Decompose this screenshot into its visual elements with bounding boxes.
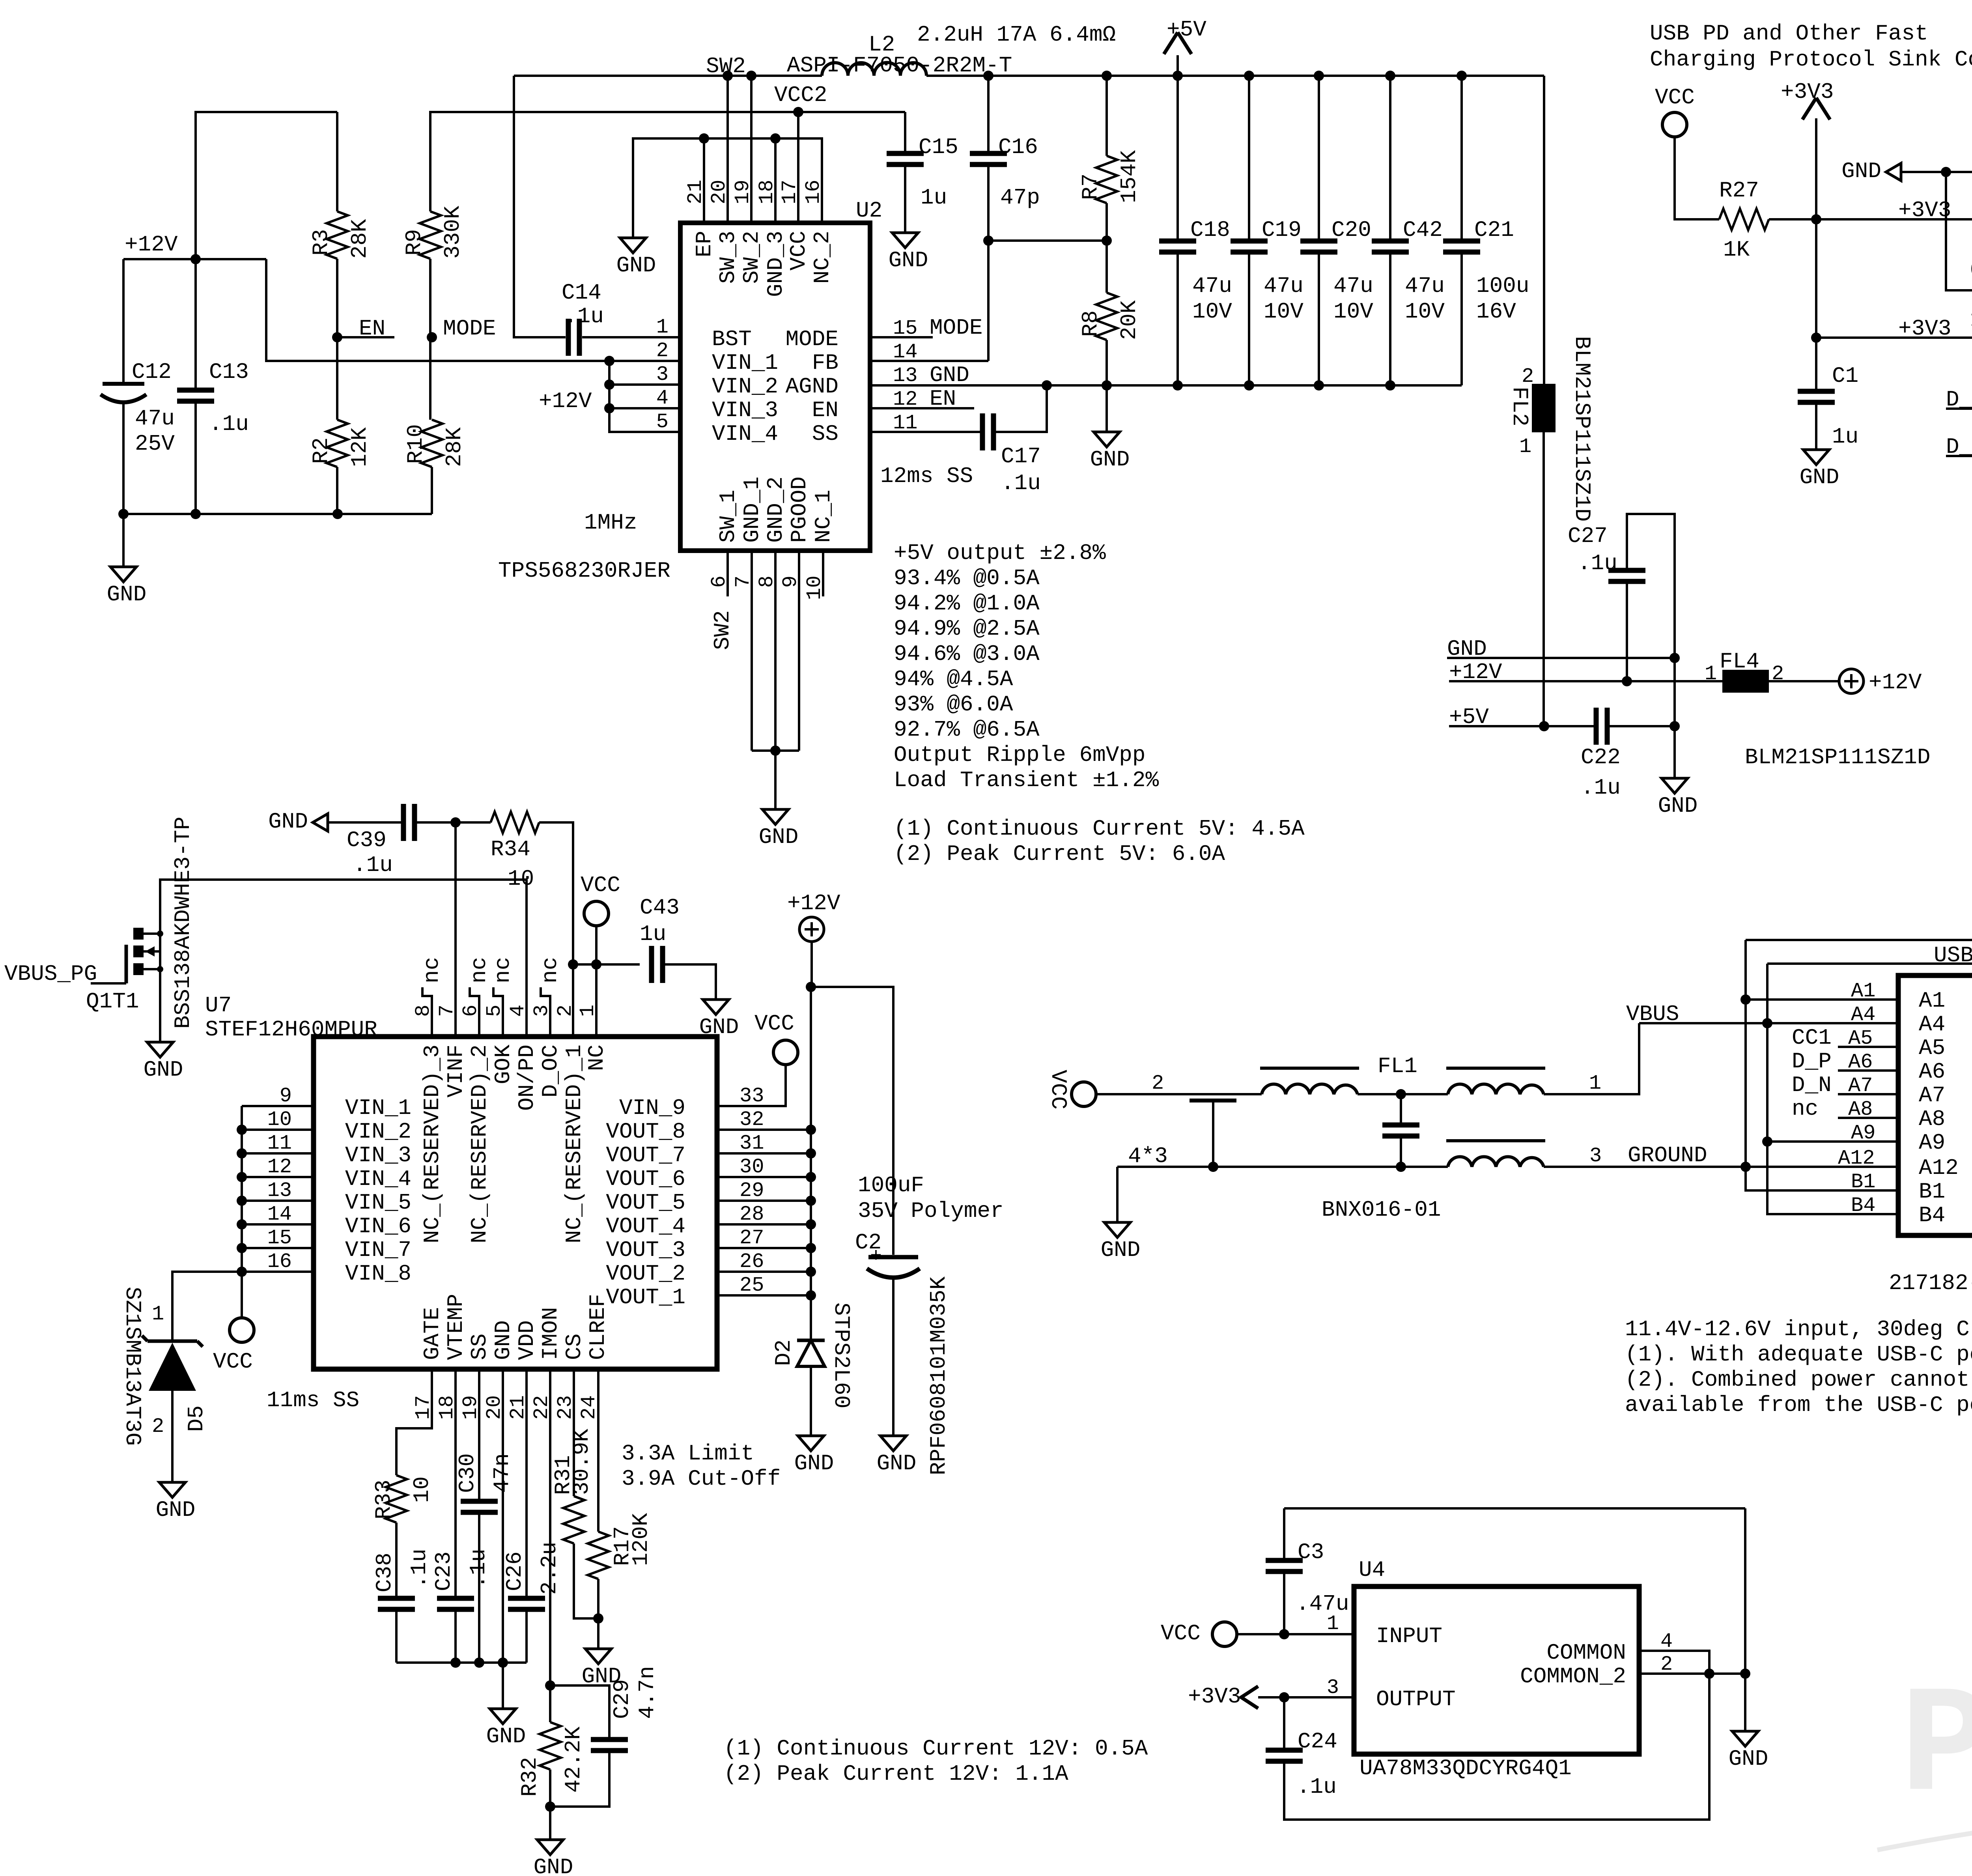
svg-text:IMON: IMON — [538, 1307, 563, 1360]
svg-text:9: 9 — [280, 1084, 292, 1108]
junction +5V rail x=3706 — [1457, 71, 1467, 81]
wire input ground rail — [123, 513, 432, 515]
svg-text:GND_1: GND_1 — [739, 476, 765, 543]
junction +3V3 node — [1811, 214, 1821, 224]
ferrite bead FL4 — [1722, 670, 1769, 693]
wire R3 to EN node — [336, 259, 338, 420]
svg-text:GND: GND — [1729, 1746, 1768, 1771]
svg-text:47u: 47u — [135, 406, 175, 431]
wire inner loop left vertical — [1767, 964, 1898, 1214]
wire VCC stem — [595, 926, 598, 964]
wire +12V to VIN rows — [266, 259, 609, 361]
wire U7 pin10 stub — [242, 1129, 314, 1131]
+3V3 power flag arrow — [1802, 98, 1816, 120]
svg-text:GND: GND — [794, 1451, 834, 1476]
wire U7 pin18 VTEMP to C23 — [454, 1369, 457, 1598]
svg-text:10V: 10V — [1405, 299, 1445, 324]
svg-text:VIN_4: VIN_4 — [345, 1166, 411, 1192]
junction VIN bus 12 — [237, 1172, 247, 1182]
svg-text:A9: A9 — [1851, 1121, 1875, 1145]
junction FL1 gnd/shunt — [1396, 1162, 1406, 1172]
svg-text:100uF: 100uF — [858, 1173, 924, 1198]
ground at Q1 source — [147, 1042, 173, 1057]
svg-text:.1u: .1u — [1001, 471, 1041, 496]
junction gnd rail x=2806 — [1102, 380, 1112, 391]
filter FL1 feedthrough plate — [1190, 1099, 1236, 1102]
junction FB divider — [983, 235, 993, 246]
svg-text:+12V: +12V — [1869, 670, 1922, 695]
wire VCC to FL1 pin2 — [1096, 1093, 1262, 1095]
resistor R32 42.2K — [540, 1722, 561, 1769]
wire USB-C A8 stub — [1838, 1117, 1898, 1119]
diode D2 STPS2L60 — [797, 1339, 825, 1342]
wire A1 row — [1746, 998, 1898, 1001]
svg-text:.1u: .1u — [1297, 1774, 1337, 1799]
wire FL1 shunt cap bottom — [1400, 1138, 1402, 1167]
svg-text:R34: R34 — [491, 837, 530, 862]
wire C20 bottom lead — [1318, 252, 1320, 385]
junction OUTPUT/C24 — [1279, 1692, 1289, 1702]
junction GROUND/outer loop — [1740, 1162, 1751, 1172]
svg-text:C12: C12 — [132, 359, 172, 385]
wire U7 pin16 stub — [242, 1271, 314, 1273]
wire U2 pin10 NC_1 stub — [822, 551, 824, 596]
svg-text:47p: 47p — [1000, 185, 1040, 210]
wire D2 anode to gnd — [810, 1366, 812, 1436]
ground at R17/R31 — [585, 1649, 611, 1664]
svg-text:.1u: .1u — [1581, 775, 1621, 800]
svg-text:GND: GND — [1800, 465, 1839, 490]
svg-text:VIN_1: VIN_1 — [712, 350, 778, 376]
wire VIN_2 stub — [609, 383, 680, 386]
svg-text:MODE: MODE — [443, 316, 496, 341]
wire D5 anode to ground — [171, 1391, 174, 1482]
svg-text:B1: B1 — [1919, 1179, 1945, 1204]
svg-text:B4: B4 — [1851, 1194, 1875, 1217]
svg-text:35V Polymer: 35V Polymer — [858, 1198, 1004, 1224]
svg-text:VOUT_6: VOUT_6 — [606, 1166, 685, 1192]
wire U2 pin15 MODE stub — [870, 336, 933, 338]
svg-text:VIN_5: VIN_5 — [345, 1190, 411, 1215]
wire U2 ground stem — [774, 751, 777, 809]
svg-text:11.4V-12.6V input, 30deg C: 11.4V-12.6V input, 30deg C — [1625, 1317, 1970, 1342]
svg-text:USB PD and Other Fast: USB PD and Other Fast — [1650, 21, 1928, 46]
svg-text:GND: GND — [156, 1497, 196, 1523]
wire +5V rail down to FL2 — [1543, 76, 1545, 384]
wire R7 top from +5V rail — [1106, 76, 1108, 156]
wire U7 pin13 stub — [242, 1200, 314, 1202]
svg-text:GND: GND — [534, 1855, 573, 1876]
wire VCC2 down to C15 — [904, 112, 906, 153]
svg-text:3: 3 — [1327, 1676, 1339, 1699]
svg-text:C39: C39 — [347, 828, 387, 853]
ground below U2 — [762, 809, 788, 824]
capacitor C42 — [1372, 239, 1409, 244]
junction VOUT bus 29 — [806, 1196, 816, 1206]
svg-text:27: 27 — [739, 1226, 764, 1250]
junction VIN bus 15 — [237, 1243, 247, 1253]
svg-text:R8: R8 — [1078, 310, 1103, 337]
svg-text:13: 13 — [267, 1179, 292, 1202]
wire C13 bottom lead — [194, 401, 197, 514]
svg-text:GND: GND — [1090, 447, 1130, 472]
wire C21 bottom lead — [1460, 252, 1463, 385]
svg-text:NC_1: NC_1 — [811, 490, 836, 543]
wire U2 pin6 SW_1 stub — [726, 551, 729, 596]
wire R32 to gnd node — [549, 1769, 551, 1840]
svg-text:28K: 28K — [442, 427, 467, 467]
wire R9 top to VCC2 — [430, 112, 905, 211]
wire VBUS_PG to Q1 gate — [91, 982, 126, 985]
wire U7 VOUT pin27 stub — [717, 1247, 811, 1249]
svg-text:.1u: .1u — [564, 304, 604, 329]
wire C16 bottom to FB node — [987, 164, 990, 361]
+12V output flag — [1839, 669, 1864, 693]
junction VOUT bus 28 — [806, 1219, 816, 1229]
svg-text:3: 3 — [656, 363, 669, 386]
svg-text:A6: A6 — [1919, 1059, 1945, 1084]
capacitor C22 — [1594, 708, 1599, 745]
wire +5V flag stem — [1176, 55, 1179, 76]
wire U7 pin8 nc stub — [422, 987, 432, 1037]
svg-text:VOUT_4: VOUT_4 — [606, 1214, 685, 1239]
svg-text:7: 7 — [435, 1005, 459, 1017]
wire to D5 cathode — [172, 1272, 242, 1340]
svg-text:1u: 1u — [1832, 424, 1858, 449]
junction C39/R34/pin7 — [450, 817, 461, 828]
wire outer loop top/right (B12 net) — [1746, 940, 1972, 1118]
capacitor C23 — [437, 1596, 474, 1601]
wire U7 pin2 up — [572, 964, 574, 1037]
svg-text:VOUT_3: VOUT_3 — [606, 1237, 685, 1263]
svg-text:.47u: .47u — [1296, 1591, 1349, 1616]
wire U7 VOUT pin31 stub — [717, 1152, 811, 1155]
wire U7 VOUT pin26 stub — [717, 1271, 811, 1273]
wire VIN bus vertical — [241, 1106, 243, 1272]
svg-text:33: 33 — [739, 1084, 764, 1108]
junction VCC stem/U7 pin1 — [591, 959, 601, 970]
svg-text:GND: GND — [616, 253, 656, 278]
wire U7 pin15 stub — [242, 1247, 314, 1249]
svg-text:B4: B4 — [1919, 1203, 1945, 1228]
svg-text:94.9% @2.5A: 94.9% @2.5A — [894, 616, 1040, 641]
svg-text:NC_(RESERVED)_2: NC_(RESERVED)_2 — [467, 1045, 492, 1243]
svg-text:VIN_3: VIN_3 — [345, 1143, 411, 1168]
junction VIN bus 11 — [237, 1148, 247, 1158]
junction R34/U7 pin2 — [568, 959, 578, 970]
svg-text:4*3: 4*3 — [1128, 1144, 1168, 1169]
svg-text:SS: SS — [467, 1334, 492, 1360]
svg-text:EP: EP — [692, 231, 717, 257]
svg-text:16V: 16V — [1476, 299, 1516, 324]
wire U2 pin20 SW_3 to SW2 rail — [726, 76, 729, 223]
svg-text:93% @6.0A: 93% @6.0A — [894, 692, 1013, 717]
wire R10 to ground rail — [431, 467, 433, 514]
svg-text:VCC: VCC — [1161, 1621, 1201, 1646]
wire U2 pin8 GND_2 down — [774, 551, 777, 751]
svg-text:2: 2 — [656, 339, 669, 362]
svg-text:25: 25 — [739, 1274, 764, 1297]
svg-text:1: 1 — [152, 1302, 164, 1326]
wire R9 to MODE node — [429, 259, 431, 420]
svg-text:nc: nc — [1792, 1096, 1818, 1121]
svg-text:4: 4 — [506, 1005, 530, 1017]
svg-text:26: 26 — [739, 1250, 764, 1273]
svg-text:11ms SS: 11ms SS — [267, 1388, 359, 1413]
svg-text:U7: U7 — [205, 993, 232, 1018]
ground at R32 — [537, 1840, 563, 1855]
svg-text:nc: nc — [467, 957, 492, 983]
wire FL1 feedthrough to gnd rail — [1212, 1101, 1214, 1167]
svg-text:10V: 10V — [1333, 299, 1373, 324]
junction VOUT bus 31 — [806, 1148, 816, 1158]
svg-text:SW2: SW2 — [710, 610, 735, 650]
svg-text:PCBWay: PCBWay — [1900, 1662, 1972, 1835]
svg-text:2: 2 — [1152, 1072, 1164, 1095]
wire U7 pin3 nc stub — [541, 987, 550, 1037]
resistor R10 28K — [421, 420, 443, 467]
svg-text:nc: nc — [419, 957, 444, 983]
filter FL1 inductor A — [1262, 1084, 1358, 1094]
svg-text:12ms SS: 12ms SS — [880, 463, 973, 489]
wire U2 pin17 VCC to VCC2 net — [797, 112, 799, 223]
VCC flag at U7 pin33 — [773, 1040, 798, 1065]
junction common/loop — [1704, 1669, 1714, 1679]
svg-text:BST: BST — [712, 327, 752, 352]
svg-text:+12V: +12V — [539, 389, 592, 414]
wire gnd to C39 — [328, 821, 402, 824]
svg-text:8: 8 — [412, 1005, 435, 1017]
wire FL1 pin1 out — [1544, 1023, 1639, 1094]
junction VIN bus 10 — [237, 1125, 247, 1135]
svg-text:BNX016-01: BNX016-01 — [1322, 1197, 1441, 1222]
junction GND net / C27 — [1669, 653, 1680, 663]
wire U7 pin14 stub — [242, 1223, 314, 1226]
wire R27 to +3V3 node — [1769, 218, 1816, 220]
junction gnd rail x=2654 — [1042, 380, 1052, 391]
svg-text:30: 30 — [739, 1155, 764, 1179]
ground at D2 — [798, 1436, 824, 1451]
svg-text:Charging Protocol Sink Control: Charging Protocol Sink Controller — [1650, 47, 1972, 72]
svg-text:16: 16 — [267, 1250, 292, 1273]
svg-text:1: 1 — [1589, 1072, 1601, 1095]
svg-text:3: 3 — [1589, 1144, 1602, 1168]
wire U2 EP/GND_3/NC_2 ground link — [633, 138, 822, 238]
wire bottom cap bus — [396, 1661, 527, 1664]
junction +5V rail x=2806 — [1102, 71, 1112, 81]
wire C20 top lead — [1318, 76, 1320, 241]
svg-text:29: 29 — [739, 1179, 764, 1202]
junction gnd rail x=3344 — [1314, 380, 1324, 391]
svg-text:30.9K: 30.9K — [569, 1429, 594, 1495]
svg-text:VIN_4: VIN_4 — [712, 421, 778, 447]
svg-text:C2: C2 — [855, 1230, 881, 1255]
svg-text:VIN_6: VIN_6 — [345, 1214, 411, 1239]
wire FL1 gnd left drop — [1116, 1167, 1119, 1222]
junction inner loop A9 — [1762, 1136, 1772, 1147]
wire FL4 to +12V output — [1769, 680, 1839, 682]
svg-text:GND: GND — [759, 824, 799, 850]
wire +3V3 to U3 VDD — [1816, 218, 1972, 220]
svg-text:47u: 47u — [1333, 273, 1373, 299]
svg-text:2: 2 — [1522, 365, 1534, 388]
capacitor C43 — [649, 946, 654, 983]
svg-text:VCC: VCC — [754, 1011, 794, 1036]
junction gnd rail x=2986 — [1173, 380, 1183, 391]
junction VIN bus pin16/D5 — [237, 1267, 247, 1277]
ground at C22/C27 — [1662, 778, 1688, 793]
wire U7 pin19 SS to C30 — [478, 1369, 480, 1501]
svg-text:12K: 12K — [347, 427, 372, 467]
svg-text:(1) Continuous Current 12V: 0.: (1) Continuous Current 12V: 0.5A — [724, 1736, 1148, 1761]
svg-text:C14: C14 — [562, 280, 601, 305]
junction VCC2 at U2 VCC — [793, 107, 803, 117]
svg-text:10: 10 — [508, 866, 534, 891]
junction FL1 gnd/feedthrough — [1208, 1162, 1218, 1172]
junction SW2 pin20 — [723, 71, 733, 81]
wire R8 top — [1106, 241, 1108, 293]
capacitor C18 — [1159, 239, 1196, 244]
svg-text:1MHz: 1MHz — [584, 510, 637, 535]
wire GND column down — [1673, 658, 1676, 778]
svg-text:D_OC: D_OC — [538, 1045, 563, 1097]
wire +12V net line — [1449, 680, 1722, 682]
ground at D5 — [159, 1482, 185, 1497]
ground input section — [110, 567, 136, 582]
wire +12V flag stem — [810, 942, 813, 987]
svg-text:+12V: +12V — [787, 891, 840, 916]
VCC flag at U4 — [1212, 1622, 1237, 1646]
wire FL1 shunt cap top — [1400, 1094, 1402, 1123]
wire C29 top link — [550, 1685, 609, 1740]
wire C30 to bus — [478, 1512, 480, 1663]
wire VBUS to USB-C — [1639, 1022, 1898, 1024]
svg-text:VIN_1: VIN_1 — [345, 1095, 411, 1121]
svg-text:+3V3: +3V3 — [1188, 1684, 1241, 1709]
wire C12 top lead — [122, 259, 125, 384]
wire C24 bottom loop — [1284, 1674, 1709, 1820]
svg-text:VIN_7: VIN_7 — [345, 1237, 411, 1263]
svg-text:C20: C20 — [1331, 217, 1371, 243]
wire U7 pin7 up — [454, 822, 457, 1037]
+12V flag at VOUT — [799, 917, 824, 942]
junction GND_3-GND wire — [770, 133, 781, 144]
wire U7 VOUT pin28 stub — [717, 1223, 811, 1226]
svg-text:R32: R32 — [517, 1757, 542, 1797]
svg-text:C16: C16 — [998, 135, 1038, 160]
svg-text:C38: C38 — [372, 1553, 397, 1592]
connector USB-C body — [1898, 975, 1972, 1235]
junction +5V rail x=3525 — [1385, 71, 1395, 81]
wire C19 bottom lead — [1248, 252, 1250, 385]
svg-text:C22: C22 — [1581, 745, 1621, 770]
svg-text:VOUT_5: VOUT_5 — [606, 1190, 685, 1215]
svg-text:0: 0 — [1970, 258, 1972, 283]
junction +5V rail x=2506 — [983, 71, 993, 81]
IC U7 STEF12H60MPUR body — [314, 1037, 717, 1369]
svg-text:3.9A Cut-Off: 3.9A Cut-Off — [622, 1466, 781, 1491]
wire GND net line — [1447, 657, 1675, 659]
wire C23 to bus — [454, 1609, 457, 1663]
svg-text:GND: GND — [1101, 1237, 1141, 1263]
filter FL1 inductor B — [1448, 1084, 1544, 1094]
svg-text:NC_(RESERVED)_1: NC_(RESERVED)_1 — [562, 1045, 587, 1243]
svg-text:93.4% @0.5A: 93.4% @0.5A — [894, 566, 1040, 591]
svg-text:BLM21SP111SZ1D: BLM21SP111SZ1D — [1745, 745, 1930, 770]
wire C2 branch — [811, 987, 893, 1255]
VCC flag at FL1 — [1072, 1082, 1096, 1106]
svg-text:32: 32 — [739, 1108, 764, 1131]
svg-text:FL1: FL1 — [1378, 1054, 1417, 1079]
svg-text:SW_1: SW_1 — [715, 490, 741, 543]
capacitor C27 — [1608, 568, 1645, 573]
junction bottom ground bus — [770, 746, 781, 756]
svg-text:94% @4.5A: 94% @4.5A — [894, 667, 1013, 692]
wire FL1 mid link — [1358, 1093, 1448, 1095]
junction +5V rail x=2986 — [1173, 71, 1183, 81]
svg-text:R3: R3 — [308, 229, 334, 256]
svg-text:A8: A8 — [1848, 1098, 1873, 1121]
svg-text:C30: C30 — [455, 1453, 480, 1493]
svg-text:330K: 330K — [440, 206, 465, 259]
wire C18 top lead — [1176, 76, 1179, 241]
wire C2 bottom to gnd — [892, 1279, 894, 1436]
ferrite bead FL2 — [1532, 384, 1556, 432]
svg-text:1u: 1u — [921, 185, 947, 210]
svg-text:13: 13 — [893, 364, 917, 387]
svg-text:VTEMP: VTEMP — [443, 1294, 469, 1360]
svg-text:217182-0001: 217182-0001 — [1889, 1271, 1972, 1296]
wire C22 right lead — [1610, 725, 1675, 727]
svg-text:C15: C15 — [919, 135, 958, 160]
svg-text:COMMON: COMMON — [1546, 1640, 1626, 1665]
wire C38 to bus — [395, 1609, 398, 1663]
svg-text:R10: R10 — [403, 424, 428, 464]
svg-text:(1) Continuous Current 5V: 4.5: (1) Continuous Current 5V: 4.5A — [894, 816, 1305, 841]
svg-text:GND: GND — [889, 248, 928, 273]
wire C18 bottom lead — [1176, 252, 1179, 385]
wire GROUND to USB-C — [1544, 1166, 1898, 1168]
capacitor C16 — [970, 151, 1007, 156]
junction gnd rail C12 — [118, 509, 129, 519]
svg-text:ASPI-F7050-2R2M-T: ASPI-F7050-2R2M-T — [787, 53, 1012, 78]
wire U2 pin12 EN stub — [870, 407, 974, 409]
svg-text:VCC: VCC — [1655, 85, 1695, 110]
ground at C43 — [703, 1000, 729, 1015]
wire +3V3 flag stem — [1815, 118, 1817, 219]
wire U2 pin9 PGOOD down — [798, 551, 800, 751]
junction VIN bus 14 — [237, 1219, 247, 1229]
svg-text:Output Ripple 6mVpp: Output Ripple 6mVpp — [894, 742, 1146, 768]
wire R2 to ground rail — [336, 467, 338, 514]
junction IMON/C29 — [545, 1680, 555, 1691]
svg-text:GND_3: GND_3 — [763, 231, 788, 297]
svg-text:C43: C43 — [640, 895, 680, 920]
svg-text:D_N: D_N — [1792, 1073, 1832, 1098]
junction +12V/C2 branch — [806, 982, 816, 992]
svg-text:+5V: +5V — [1167, 17, 1206, 42]
svg-text:VDD: VDD — [514, 1320, 540, 1360]
junction +5V rail x=3344 — [1314, 71, 1324, 81]
svg-text:TPS568230RJER: TPS568230RJER — [498, 558, 670, 583]
wire C27 bottom to +12V — [1626, 581, 1628, 681]
wire VCC to U4 INPUT — [1237, 1633, 1354, 1635]
capacitor C1 — [1798, 389, 1835, 394]
svg-text:10V: 10V — [1264, 299, 1303, 324]
wire analog ground rail — [870, 384, 1462, 387]
capacitor C20 — [1300, 239, 1337, 244]
svg-text:D5: D5 — [184, 1405, 209, 1432]
